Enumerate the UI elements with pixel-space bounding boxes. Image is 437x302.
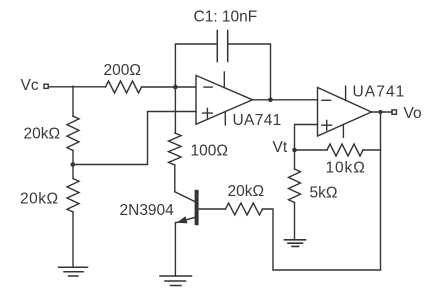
wire R1 to opamp minus input	[142, 86, 197, 88]
wire junction down to R4 100ohm	[174, 87, 176, 133]
node junction dot output U1	[268, 98, 273, 103]
svg-text:2N3904: 2N3904	[120, 202, 175, 219]
resistor R1 200ohm	[106, 81, 142, 93]
wire divider junction to plus branch	[73, 112, 196, 165]
op-amp U1 bottom power pin	[224, 112, 226, 125]
op-amp U2 triangle	[318, 88, 372, 137]
wire R5 to feedback bottom path	[263, 112, 381, 270]
ground GND3	[285, 240, 306, 247]
wire R4 to collector	[174, 165, 176, 192]
ground GND2	[160, 276, 192, 286]
svg-text:Vc: Vc	[21, 77, 39, 94]
wire junction up to C1	[175, 44, 217, 87]
op-amp U2 plus symbol	[322, 120, 332, 130]
wire R7 to ground	[294, 203, 296, 240]
svg-text:C1: 10nF: C1: 10nF	[194, 8, 258, 25]
node Vc terminal	[44, 84, 48, 88]
wire base to R5	[198, 208, 225, 210]
svg-text:UA741: UA741	[353, 84, 406, 101]
node Vo terminal	[392, 110, 396, 114]
node junction dot output U2	[378, 110, 382, 114]
wire emitter to ground	[174, 223, 176, 277]
wire R6 to output vertical	[363, 149, 381, 151]
wire Vt down to R7	[294, 150, 296, 169]
resistor R2 20kohm upper	[67, 116, 79, 151]
resistor R7 5kohm	[289, 169, 301, 202]
ground GND1	[59, 267, 88, 276]
op-amp U2 minus symbol	[322, 99, 331, 101]
wire C1 right side down to output junction	[228, 44, 271, 100]
op-amp U1 triangle	[196, 75, 253, 124]
resistor R4 100ohm	[169, 133, 182, 165]
transistor Q1 emitter lead	[177, 217, 195, 222]
transistor Q1 emitter arrow	[177, 216, 188, 223]
wire Vt to R6	[295, 149, 328, 151]
resistor R5 20kohm base	[226, 203, 263, 215]
svg-text:20kΩ: 20kΩ	[24, 126, 61, 143]
wire left branch down from Vc wire	[72, 86, 74, 116]
node junction dot minus input	[173, 85, 178, 90]
wire U2 plus input	[295, 125, 318, 151]
svg-text:20kΩ: 20kΩ	[20, 191, 59, 208]
wire U1 output to U2 minus input	[253, 99, 318, 101]
node junction dot divider	[71, 162, 76, 167]
svg-text:Vo: Vo	[404, 105, 422, 122]
wire R3 to ground	[72, 212, 74, 267]
svg-text:20kΩ: 20kΩ	[228, 183, 265, 200]
svg-text:UA741: UA741	[233, 112, 282, 129]
transistor Q1 base bar	[195, 192, 199, 223]
resistor R3 20kohm lower	[67, 179, 79, 212]
wire Vc to R1	[49, 86, 106, 88]
svg-text:10kΩ: 10kΩ	[326, 160, 366, 177]
svg-text:100Ω: 100Ω	[191, 143, 228, 160]
svg-text:200Ω: 200Ω	[104, 62, 141, 79]
op-amp U1 plus symbol	[203, 108, 213, 118]
wire U2 output to Vo terminal	[371, 111, 392, 113]
svg-text:Vt: Vt	[273, 139, 288, 156]
resistor R6 10kohm	[327, 144, 363, 156]
capacitor C1	[217, 31, 227, 62]
node Vt junction dot	[292, 148, 297, 153]
op-amp U1 top power pin	[223, 72, 225, 88]
svg-text:5kΩ: 5kΩ	[310, 185, 338, 202]
op-amp U2 top power pin	[345, 86, 347, 100]
op-amp U2 bottom power pin	[342, 125, 344, 138]
op-amp U1 minus symbol	[204, 86, 212, 88]
transistor Q1 collector lead	[175, 192, 195, 202]
wire between 20k resistors	[72, 151, 74, 179]
